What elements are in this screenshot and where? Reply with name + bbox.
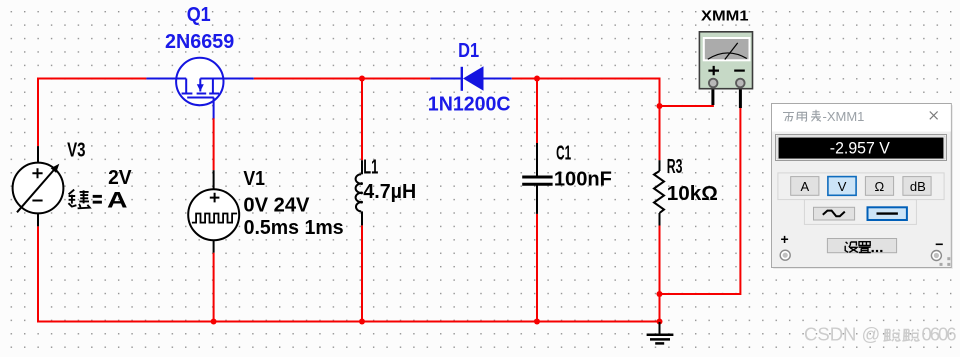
svg-text:A: A <box>107 188 128 213</box>
svg-text:XMM1: XMM1 <box>701 9 749 25</box>
node R3 bottom / XMM1 minus junction <box>657 291 663 297</box>
V3 circle <box>13 163 64 214</box>
XMM1 minus terminal <box>736 79 745 88</box>
ellipsis dots <box>872 250 883 252</box>
D1 left lead stub <box>430 78 461 80</box>
title text CJK wan-yong-biao <box>783 110 821 122</box>
transistor Q1 body circle <box>176 58 223 105</box>
panel body <box>772 104 952 268</box>
V1 bottom lead stub <box>213 240 215 253</box>
XMM1 plus mark <box>708 66 719 75</box>
close X icon <box>930 112 938 120</box>
node L1 bottom bus junction <box>359 319 365 325</box>
node L1 top junction <box>359 76 365 82</box>
XMM1 plus lead black <box>711 87 714 105</box>
glyph wan <box>783 113 794 122</box>
svg-text:10kΩ: 10kΩ <box>667 183 718 205</box>
group box 2 <box>804 200 916 225</box>
svg-text:V3: V3 <box>67 139 85 161</box>
Q1 gate lead stub <box>146 78 186 80</box>
Q1 middle plate <box>197 93 207 95</box>
button shezhi (settings) <box>827 239 896 253</box>
group box 1 <box>778 173 944 200</box>
node D1-C1 junction <box>534 76 540 82</box>
wire XMM1 minus lead down and left <box>660 108 741 294</box>
svg-text:4.7µH: 4.7µH <box>363 181 416 203</box>
wire XMM1 plus lead horizontal <box>660 104 713 106</box>
glyph yong <box>797 112 807 121</box>
button V (selected) <box>828 177 856 196</box>
wire L1 bottom to bus <box>361 225 363 321</box>
C1 top lead stub <box>536 143 538 176</box>
node ground bus junction <box>657 319 663 325</box>
svg-text:-2.957 V: -2.957 V <box>830 139 890 157</box>
XMM1 body <box>699 32 752 89</box>
C1 bottom plate <box>522 183 552 186</box>
V1 pulse waveform <box>192 214 237 223</box>
V3 arrowhead <box>51 164 60 173</box>
button dB <box>903 177 931 196</box>
button Ohm <box>865 177 893 196</box>
wire L1 top branch <box>361 79 363 161</box>
L1 top lead stub <box>361 160 363 174</box>
svg-text:A: A <box>801 179 810 194</box>
svg-text:0.5ms 1ms: 0.5ms 1ms <box>244 217 344 239</box>
label 键 = A (key = A) <box>68 188 127 213</box>
wire Q1 source down to V1 <box>213 118 215 170</box>
V3 plus sign <box>32 168 42 178</box>
panel minus mark <box>936 243 943 245</box>
glyph zhi <box>859 242 871 253</box>
svg-text:dB: dB <box>910 179 926 194</box>
L1 bottom lead stub <box>361 211 363 225</box>
button A <box>791 177 819 196</box>
wire R3 bottom to ground junction <box>659 226 661 322</box>
svg-text:2V: 2V <box>108 167 132 189</box>
wire V3 bottom to bus corner <box>38 226 660 321</box>
XMM1 screen <box>704 38 750 60</box>
ground stem <box>659 322 661 335</box>
V1 plus sign <box>210 193 220 203</box>
display black area <box>779 138 944 159</box>
Q1 source lead down <box>213 98 215 119</box>
XMM1 plus terminal <box>709 79 718 88</box>
V1 top lead stub <box>213 170 215 189</box>
svg-text:R3: R3 <box>667 156 683 178</box>
svg-text:0606: 0606 <box>922 324 957 345</box>
panel title bar <box>772 104 951 132</box>
glyph cong 2 <box>902 329 919 341</box>
wire V1 bottom to bus <box>213 253 215 322</box>
wire C1 bottom to bus <box>536 214 538 322</box>
wire C1 top branch <box>536 79 538 144</box>
svg-text:V: V <box>838 179 847 194</box>
node C1 bottom bus junction <box>534 319 540 325</box>
svg-text:1N1200C: 1N1200C <box>428 93 511 115</box>
svg-text:CSDN @: CSDN @ <box>804 324 880 345</box>
V3 top lead stub <box>37 146 39 163</box>
wire top-left horizontal V3 to Q1 gate stub <box>38 79 146 147</box>
panel left terminal <box>780 250 790 260</box>
Q1 middle contact with arrow <box>199 79 201 92</box>
svg-text:2N6659: 2N6659 <box>165 31 234 53</box>
V3 bottom lead stub <box>37 213 39 226</box>
XMM1 meter needle <box>725 43 738 60</box>
svg-text:+: + <box>781 231 789 247</box>
glyph biao <box>811 110 821 122</box>
ground bar 2 <box>650 338 670 341</box>
glyph jian (key) <box>68 190 89 209</box>
V1 circle <box>188 189 239 240</box>
svg-text:Q1: Q1 <box>187 4 211 26</box>
ground bar 1 <box>647 333 674 336</box>
svg-text:V1: V1 <box>243 168 265 190</box>
node R3 top / XMM1 plus junction <box>657 103 663 109</box>
R3 bottom lead stub <box>659 213 661 226</box>
L1 coil arcs <box>356 174 362 211</box>
svg-text:D1: D1 <box>458 40 479 62</box>
svg-text:C1: C1 <box>556 143 571 165</box>
wire D1 right to R3 corner, down to R3 <box>512 79 660 161</box>
resize grip <box>940 257 951 266</box>
Q1 right plate <box>209 93 219 95</box>
panel right terminal <box>931 251 941 261</box>
ground bar 3 <box>655 342 664 345</box>
XMM1 meter arc <box>708 53 747 59</box>
panel shadow <box>773 105 953 269</box>
svg-text:Ω: Ω <box>875 179 885 194</box>
button DC (selected) <box>868 207 907 220</box>
svg-text:0V 24V: 0V 24V <box>243 195 310 217</box>
glyph cong 1 <box>883 329 900 341</box>
D1 cathode bar <box>461 67 463 91</box>
C1 top plate <box>522 176 552 179</box>
Q1 gate bar <box>185 79 187 93</box>
wire Q1 drain-side to L1/D1/corner <box>254 78 431 80</box>
D1 right lead stub <box>483 78 512 80</box>
node V1 bottom bus junction <box>211 319 217 325</box>
R3 top lead stub <box>659 160 661 171</box>
C1 bottom lead stub <box>536 186 538 214</box>
svg-text:L1: L1 <box>363 157 378 179</box>
L1 coil cusp dots <box>360 182 363 185</box>
Q1 drain lead top bar <box>200 78 253 80</box>
D1 triangle <box>463 66 484 90</box>
display bezel <box>776 135 947 161</box>
V3 arrow line <box>17 168 56 213</box>
button sine <box>814 207 855 220</box>
Q1 left plate <box>182 93 193 95</box>
Q1 body bar <box>187 97 214 99</box>
Q1 right contact <box>212 79 214 93</box>
svg-text:-XMM1: -XMM1 <box>823 109 865 124</box>
V3 minus sign <box>32 200 42 202</box>
svg-text:100nF: 100nF <box>554 169 612 191</box>
R3 zigzag <box>654 171 664 213</box>
glyph she <box>845 242 858 253</box>
equals sign <box>93 195 102 198</box>
Q1 arrowhead <box>197 84 204 91</box>
XMM1 minus mark <box>734 69 745 71</box>
XMM1 minus lead black <box>739 87 742 108</box>
